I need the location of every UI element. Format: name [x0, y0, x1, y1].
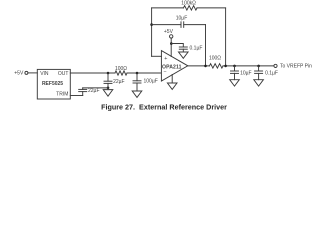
svg-text:+5V: +5V — [14, 70, 24, 76]
node junction C (10uF out cap) — [233, 65, 236, 68]
capacitor C1 22uF (TRIM to gnd) — [82, 92, 84, 96]
ground (below 22uF node) — [107, 88, 109, 90]
svg-text:0.1µF: 0.1µF — [190, 45, 203, 51]
wire op-amp V+ stub — [170, 38, 172, 56]
svg-text:+: + — [164, 56, 167, 62]
wire op-amp output rail — [188, 65, 210, 67]
svg-text:100µF: 100µF — [144, 78, 158, 84]
wire feedback left vertical — [151, 8, 153, 56]
node junction feedback left / 10uF rail — [150, 23, 153, 26]
ground (below 100uF) — [132, 91, 142, 97]
capacitor C5 0.1uF (op-amp bypass) — [179, 46, 187, 48]
capacitor C3 100uF (to gnd) — [136, 73, 138, 81]
wire feedback cap rail — [152, 24, 181, 26]
op-amp U2 OPA211 triangle — [161, 51, 187, 81]
svg-text:22µF: 22µF — [88, 88, 100, 94]
node junction at OUT / 22uF cap — [107, 72, 110, 75]
terminal +5V supply (left) — [25, 71, 28, 74]
ground (bypass cap) — [179, 52, 189, 58]
wire op-amp V- stub — [171, 75, 173, 84]
wire V+ to bypass cap — [171, 44, 183, 48]
capacitor C7 0.1uF (VREFP) — [258, 66, 260, 71]
resistor R2 100 ohm (output isolation) — [210, 64, 224, 68]
svg-text:100kΩ: 100kΩ — [181, 1, 196, 7]
svg-text:+5V: +5V — [164, 29, 174, 35]
node junction at 100uF cap — [136, 72, 139, 75]
svg-text:100Ω: 100Ω — [209, 56, 221, 62]
svg-text:0.1µF: 0.1µF — [265, 70, 278, 76]
svg-text:TRIM: TRIM — [56, 92, 68, 98]
resistor R3 100k ohm (feedback) — [184, 6, 198, 10]
wire +5V to VIN pin — [28, 72, 37, 74]
resistor R1 100 ohm (series from REF5025 OUT) — [115, 71, 127, 75]
node junction V+ / bypass cap — [170, 42, 173, 45]
svg-text:VIN: VIN — [40, 71, 49, 77]
wire TRIM cap to ground node — [83, 87, 108, 89]
voltage reference U1 REF5025 box — [37, 69, 70, 99]
ground (0.1uF VREFP cap) — [254, 80, 264, 86]
svg-text:OUT: OUT — [58, 71, 69, 77]
node junction B (100k feedback tap) — [224, 65, 227, 68]
node junction A (10uF feedback tap) — [204, 65, 207, 68]
svg-text:REF5025: REF5025 — [42, 81, 63, 87]
node junction gnd (22uF + TRIM cap) — [107, 87, 110, 90]
svg-text:OPA211: OPA211 — [162, 65, 182, 71]
capacitor C4 10uF (feedback) — [180, 22, 182, 28]
capacitor C2 22uF (OUT to gnd) — [107, 73, 109, 81]
ground (op-amp V-) — [167, 83, 177, 89]
capacitor C6 10uF (VREFP) — [234, 66, 236, 71]
svg-text:To VREFP Pin: To VREFP Pin — [280, 64, 312, 70]
wire feedback to non-inverting input — [152, 55, 162, 57]
svg-text:22µF: 22µF — [113, 79, 125, 85]
svg-text:10µF: 10µF — [176, 16, 188, 22]
wire TRIM pin — [70, 95, 82, 97]
wire feedback right verticals — [205, 25, 207, 66]
wire feedback top rail — [152, 7, 184, 9]
svg-text:Figure 27. External Reference: Figure 27. External Reference Driver — [101, 102, 227, 111]
wire OUT pin to op-amp inverting input (node OUT rail) — [70, 72, 115, 74]
ground (10uF VREFP cap) — [230, 80, 240, 86]
terminal To VREFP Pin — [274, 64, 277, 67]
svg-text:10µF: 10µF — [240, 70, 252, 76]
svg-text:100Ω: 100Ω — [115, 66, 127, 72]
node junction D (0.1uF out cap) — [257, 65, 260, 68]
terminal +5V (op-amp supply) — [170, 35, 173, 38]
